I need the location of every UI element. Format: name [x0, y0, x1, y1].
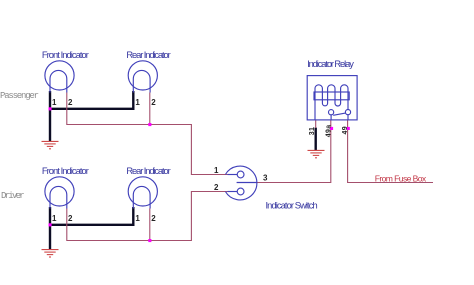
svg-text:1: 1 — [135, 214, 140, 223]
svg-text:2: 2 — [68, 98, 73, 107]
svg-text:Rear Indicator: Rear Indicator — [126, 166, 170, 176]
svg-text:49a: 49a — [325, 124, 332, 137]
svg-text:Front Indicator: Front Indicator — [42, 166, 89, 176]
svg-text:2: 2 — [214, 183, 219, 192]
svg-text:2: 2 — [68, 214, 73, 223]
svg-text:1: 1 — [214, 166, 219, 175]
svg-text:3: 3 — [263, 174, 268, 183]
svg-text:2: 2 — [151, 214, 156, 223]
svg-text:Indicator Relay: Indicator Relay — [307, 59, 354, 69]
svg-text:Driver: Driver — [1, 191, 24, 201]
svg-text:Passenger: Passenger — [0, 91, 39, 101]
svg-text:1: 1 — [135, 98, 140, 107]
svg-text:1: 1 — [52, 214, 57, 223]
svg-text:Rear Indicator: Rear Indicator — [126, 50, 170, 60]
svg-text:2: 2 — [151, 98, 156, 107]
svg-text:Front Indicator: Front Indicator — [42, 50, 89, 60]
svg-text:31: 31 — [309, 127, 316, 136]
svg-text:49: 49 — [342, 126, 349, 135]
svg-text:From Fuse Box: From Fuse Box — [375, 173, 427, 183]
svg-text:1: 1 — [52, 98, 57, 107]
svg-text:Indicator Switch: Indicator Switch — [266, 201, 318, 211]
